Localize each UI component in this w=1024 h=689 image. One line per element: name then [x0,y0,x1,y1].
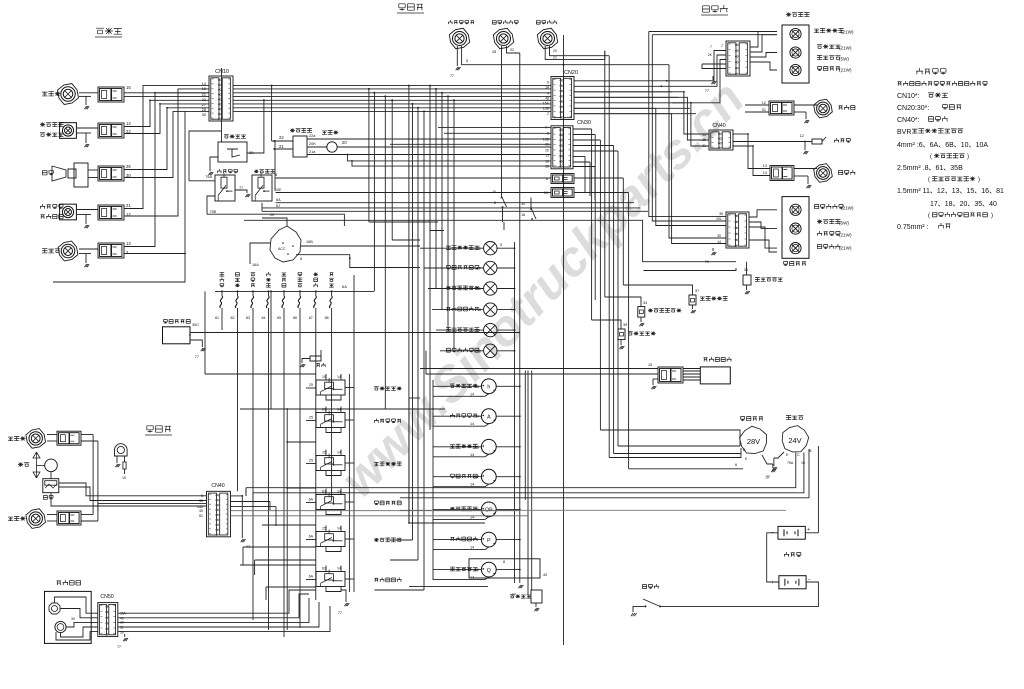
svg-text:16B: 16B [306,240,313,244]
svg-text:(: ( [928,177,930,183]
relay K2 label [374,419,379,423]
fan resistor box [43,479,59,493]
lamp front-headlamp [58,84,79,105]
wire flasher out [337,146,398,148]
svg-text:14: 14 [545,86,549,90]
svg-text:4mm² :6、6A、6B、10、10A: 4mm² :6、6A、6B、10、10A [897,142,988,149]
svg-text:40: 40 [199,509,203,513]
svg-text:5: 5 [500,243,502,247]
rear work lamp wires [794,104,817,106]
svg-text:14: 14 [470,453,474,457]
svg-text:6A: 6A [276,198,281,202]
svg-text:26: 26 [126,164,131,169]
label horn [42,171,47,175]
ground CNr2 [712,248,714,251]
svg-text:15: 15 [648,363,652,367]
wire headlamp to connector [79,92,98,94]
warning horn [49,603,60,614]
bundle B2 top links [573,128,592,130]
svg-text:40: 40 [543,573,547,577]
svg-text:7: 7 [721,44,723,48]
gray line to generator row [400,509,786,511]
svg-text:35C: 35C [192,323,199,327]
svg-text:21: 21 [126,203,131,208]
svg-text:83: 83 [246,316,250,320]
svg-text:30: 30 [202,113,206,117]
flasher box wires [190,332,520,334]
relay K2 wires [325,407,327,413]
svg-text:13: 13 [763,164,767,168]
connector horn [98,166,124,181]
svg-text:77: 77 [766,475,770,479]
ground headlamp [84,106,89,109]
gauge Q [481,562,496,577]
svg-text:12: 12 [800,134,804,138]
work lamp 1 connector [57,431,81,445]
connector front-position [98,123,124,138]
staircase verticals center [408,86,410,523]
relay K6 [316,572,345,587]
horn front [52,166,66,181]
indicator lamp 1 [484,242,497,255]
indicator lamp 2 [484,261,497,274]
relay K1 wires [325,374,327,380]
svg-text:): ) [991,213,993,219]
relay K6 label [374,578,378,582]
switch bank [221,290,223,292]
svg-text:37: 37 [695,289,699,293]
svg-text:): ) [978,177,980,183]
svg-text:35A: 35A [120,612,127,616]
wire horn button [247,100,264,153]
svg-text:75A: 75A [787,461,794,465]
tail lamp R3 [790,243,801,254]
svg-text:22: 22 [279,135,284,140]
spine vertical [563,35,565,645]
lamp front-position [60,123,77,139]
indicator lamp 3 [484,282,497,295]
svg-text:14: 14 [763,171,767,175]
connector CN40-rear [709,130,733,150]
work lamp 2 wires [47,514,57,516]
gauge 0 wires [433,385,481,387]
svg-text:77: 77 [705,89,709,93]
gauge link y523 [409,522,485,524]
starter ground [774,452,784,458]
gauge 2 wires [433,446,481,448]
svg-text:(21W): (21W) [841,206,854,211]
wire connector to CN10 row1 [124,92,209,94]
svg-text:P: P [487,538,491,544]
tail lamp labels [814,29,819,33]
svg-text:(21W): (21W) [839,246,852,251]
fan wires [50,472,52,479]
relay K6 wires [325,566,327,572]
svg-text:34: 34 [643,301,647,305]
fan [33,452,40,458]
wire CN10 stem [221,68,223,142]
svg-text:Q: Q [487,568,491,574]
reverse lamp connector [770,166,794,181]
bundle B2 verticals [591,129,593,320]
svg-text:31: 31 [762,108,766,112]
svg-text:(21W): (21W) [839,233,852,238]
svg-text:75B: 75B [210,210,217,214]
svg-text:CN30: CN30 [577,120,591,126]
ignition switch [270,226,301,262]
svg-text:30: 30 [717,234,721,238]
ground CNr1 [712,76,714,80]
label tail box 2 [784,262,788,266]
dome lamp wires [116,456,118,463]
wire combo connector risers [124,86,209,209]
gauge feed verticals [432,380,434,580]
switch brake [501,186,503,196]
svg-text:22: 22 [202,98,206,102]
svg-text:CN20: CN20 [564,70,578,76]
svg-text:5: 5 [201,494,203,498]
svg-text:CN50: CN50 [100,594,113,600]
gauge 3 label [450,474,454,478]
svg-text:8: 8 [494,201,496,205]
lamp front-combo [60,204,77,220]
reverse lamp [814,164,833,183]
tail lamp L3 [790,64,801,75]
svg-text:(5W): (5W) [839,221,849,226]
svg-text:6J: 6J [276,204,280,208]
ignition wires [262,218,287,226]
svg-text:77: 77 [450,74,454,78]
svg-text:): ) [967,154,969,160]
svg-text:14: 14 [717,240,721,244]
gauge P [481,532,496,547]
wire cab-top-3 [545,46,605,60]
tail lamp L2 [790,47,801,58]
wires to rear connector CNr1 [660,51,726,81]
svg-text:35: 35 [702,138,706,142]
svg-text:77: 77 [195,355,199,359]
svg-text:14: 14 [470,422,474,426]
svg-text:CN40*:: CN40*: [897,117,920,124]
label horn button [224,135,229,138]
relay K5 wires [325,526,327,532]
long vertical x409 [408,398,410,523]
indicator lamp 4 [484,303,497,316]
svg-text:15: 15 [122,476,126,480]
connector CN20 [551,77,574,120]
svg-text:88: 88 [325,316,329,320]
svg-text:22a: 22a [309,134,316,138]
rear fuse [812,139,822,144]
svg-text:35: 35 [719,212,723,216]
svg-text:20: 20 [545,149,549,153]
svg-text:13B: 13B [543,107,550,111]
work lamp 1 [26,429,46,449]
indicator lamp 3 label [446,286,451,290]
gauge 0 label [450,384,455,387]
svg-text:28V: 28V [747,437,760,446]
svg-text:30: 30 [71,617,75,621]
svg-text:10: 10 [801,461,805,465]
indicator lamp 6 [484,344,497,357]
CN40-rear right wires [733,133,748,135]
indicator lamp 5 wires [436,329,484,331]
title cab-lower [147,426,153,433]
bus rows CN10 to CN20 [233,85,551,87]
indicator lamp 1 label [446,246,451,249]
svg-text:6: 6 [735,463,737,467]
solenoid wires left [420,368,658,370]
gauge Q box [469,559,540,578]
svg-text:28: 28 [202,108,206,112]
relay K3 label [374,462,379,465]
generator pins [740,448,742,458]
lamp front-turn [58,241,78,261]
electronic flasher box [163,327,191,344]
gauge 3 wires [433,476,481,478]
label oil warning [57,581,61,585]
indicator lamp 5 [484,323,497,336]
solenoid link wires [683,368,700,370]
svg-text:14: 14 [337,408,341,412]
svg-text:15: 15 [126,85,131,90]
svg-text:61: 61 [322,408,326,412]
svg-text:14: 14 [337,375,341,379]
svg-text:6A: 6A [342,284,347,289]
title cab-top [399,4,405,11]
svg-text:(: ( [928,213,930,219]
reverse switch box [293,136,307,157]
svg-text:87: 87 [309,316,313,320]
starter 24V [782,426,809,452]
indicator lamp 2 label [446,265,450,269]
svg-text:15: 15 [322,451,326,455]
svg-text:48: 48 [545,97,549,101]
long lines cab to rear [245,488,247,496]
svg-text:5: 5 [466,59,468,63]
svg-text:18: 18 [521,213,525,217]
indicator lamp 4 wires [432,309,484,311]
title rear-frame [703,6,710,12]
wire cab-top-2 [501,46,503,186]
wire position connector risers [124,100,209,126]
relay column left verticals [270,291,272,409]
svg-text:6A: 6A [309,498,314,502]
svg-text:30: 30 [249,150,254,155]
indicator lamp 5 label [446,328,451,332]
label generator [741,417,745,421]
lamp cab-top-2 [493,28,513,48]
svg-text:14: 14 [470,392,474,396]
gauge 4 label [450,507,455,511]
svg-text:85: 85 [277,316,281,320]
svg-text:2K: 2K [708,53,713,57]
reverse buzzer [743,275,751,285]
connector front-headlamp [98,87,124,102]
starter wires down [246,453,796,488]
flasher [327,142,337,152]
indicator lamp 6 wires [440,350,484,352]
svg-text:77: 77 [239,186,243,190]
gauge 2 [481,439,496,454]
label front-position [40,123,45,127]
bundle B2 bottom links to generator [609,457,741,459]
gauge OP [481,502,496,517]
relay column right verticals [348,374,350,592]
preheat resistor [531,590,542,603]
staircase bottoms horizontal [369,221,430,223]
svg-text:70: 70 [705,260,709,264]
ground between relays [235,190,247,193]
gauge 4 wires [433,508,481,510]
label solenoid [704,358,708,362]
svg-text:86: 86 [293,316,297,320]
svg-text:30: 30 [126,173,131,178]
ground turn lamp [84,264,89,267]
wire combo to connector [77,209,98,211]
svg-text:30: 30 [521,202,525,206]
svg-text:10E: 10E [275,188,282,192]
svg-text:32: 32 [510,48,514,52]
relay K4 [316,495,345,510]
wires CNr1 to tail lamp 1 [750,32,777,48]
svg-text:(21W): (21W) [839,68,852,73]
rear work lamp connector [769,101,794,115]
svg-text:+: + [771,580,774,586]
svg-text:20L: 20L [716,217,722,221]
svg-text:6: 6 [300,257,302,261]
battery 2 [779,576,806,589]
svg-text:25: 25 [309,459,313,463]
lamp cab-top-1 [449,28,469,48]
relay K1 [316,380,345,395]
work lamp 1 wires [47,434,57,436]
svg-text:22: 22 [126,129,131,134]
start switch wires [503,222,505,230]
connector front-turn [98,243,124,258]
tail lamp L1 [790,28,801,39]
svg-text:(21W): (21W) [839,46,852,51]
fuse cab [310,356,321,361]
CN40-cab corner links [269,502,271,511]
indicator lamp 1 wires [420,247,484,249]
gauge 1 label [450,413,455,417]
relay ignition-right [252,175,272,201]
gauge 3 [481,469,496,484]
svg-text:39: 39 [623,323,627,327]
wire cab-top-1 [456,46,458,66]
rear work lamp [814,99,833,118]
solenoid box [700,367,730,384]
svg-text:12: 12 [126,212,131,217]
svg-text:25: 25 [309,416,313,420]
title front-frame [96,28,104,34]
svg-text:24V: 24V [788,436,801,445]
svg-text:20: 20 [553,49,557,53]
tail lamp R2 [790,223,801,234]
gauge A [481,409,496,424]
svg-text:77: 77 [338,611,342,615]
gauge 6 wires [433,569,481,571]
svg-text:36: 36 [744,268,748,272]
svg-text:15: 15 [322,375,326,379]
relay K3 [316,456,345,471]
svg-text:14: 14 [337,567,341,571]
relay ignition-left [215,175,235,201]
relay K3 wires [325,450,327,456]
wires CN40-rear down [748,134,770,169]
svg-text:6A: 6A [309,575,314,579]
inline connectors below CN30 [551,174,574,184]
svg-text:14: 14 [202,82,206,86]
wire turn connector risers [124,93,209,247]
relay K5 [316,532,345,547]
svg-text:CN20:30*:: CN20:30*: [897,105,929,112]
horn button box [218,142,247,162]
power switch [659,605,661,607]
svg-text:C: C [797,453,800,457]
label front-combo [40,204,45,209]
sensor air-filter [689,295,696,305]
svg-text:(: ( [930,154,932,160]
tech notes block [916,68,923,74]
switch bank feed [215,290,374,292]
reverse buzzer wires [746,262,748,275]
svg-text:CN40: CN40 [712,123,725,129]
svg-text:5: 5 [547,81,549,85]
connector CN40-cab [207,491,231,537]
solenoid connector [658,367,683,383]
svg-text:13: 13 [702,133,706,137]
svg-text:28: 28 [492,50,496,54]
battery wires [805,532,818,534]
reverse lamp wires [794,168,817,170]
relay K4 label [374,501,378,505]
svg-text:14: 14 [337,451,341,455]
svg-text:77: 77 [117,645,121,649]
wire horn to connector [88,169,98,171]
svg-text:16A: 16A [252,263,259,267]
verticals to CNr2 [649,32,726,217]
relay bottom links [243,546,316,548]
svg-text:CN10: CN10 [215,69,229,75]
gauge 5 label [450,537,454,541]
lamp cab-top-3 [537,28,557,48]
svg-text:7: 7 [710,45,712,49]
connector CNr2 [726,212,749,248]
power switch wire [563,644,565,646]
svg-text:6: 6 [546,177,548,181]
sensor oil-pressure [638,307,645,318]
svg-text:77: 77 [246,545,250,549]
svg-text:10: 10 [544,191,548,195]
generator 28V [740,426,767,453]
svg-text:20K: 20K [309,142,316,146]
CN50 right wires [117,612,119,614]
CN50 riser corners [118,590,316,613]
wires CN20r down to CN40rear [574,92,709,134]
svg-text:30: 30 [120,621,124,625]
svg-text:16B: 16B [543,138,550,142]
ground gauges bus [518,585,523,588]
svg-text:21: 21 [553,56,557,60]
work lamp 2 [26,509,46,529]
wires top loop left [649,31,777,33]
junction dots misc [563,64,565,66]
tail lamp 2 labels [814,205,818,209]
ground combo lamp [84,225,89,228]
line y225 to buzzer [430,220,736,261]
